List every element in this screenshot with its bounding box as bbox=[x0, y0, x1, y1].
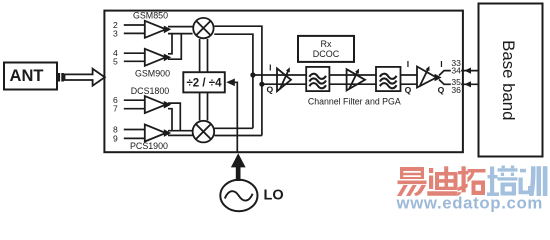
svg-text:Rx: Rx bbox=[321, 39, 332, 49]
svg-text:3: 3 bbox=[113, 28, 118, 38]
LNA DCS1800 bbox=[145, 96, 166, 113]
wire PCS1900 pair to mixer RF2 input (lower) bbox=[168, 134, 193, 136]
svg-text:DCOC: DCOC bbox=[313, 49, 340, 59]
watermark 易 bbox=[397, 167, 427, 196]
PGA amplifier A1 bbox=[277, 67, 291, 91]
mixer M2 (high band) bbox=[193, 121, 215, 143]
pin 8 lead wire bbox=[124, 129, 145, 131]
svg-text:LO: LO bbox=[264, 188, 284, 204]
pin 5 lead wire bbox=[124, 60, 145, 62]
svg-text:9: 9 bbox=[113, 133, 118, 143]
svg-text:÷2 / ÷4: ÷2 / ÷4 bbox=[187, 77, 223, 89]
svg-text:GSM850: GSM850 bbox=[133, 10, 168, 20]
A3 output arrowhead bbox=[435, 74, 442, 82]
svg-text:7: 7 bbox=[113, 104, 118, 114]
wire DCS1800 output A bbox=[168, 103, 180, 131]
wire Q output to baseband bbox=[439, 80, 479, 85]
arrowhead on I output bbox=[464, 68, 471, 74]
RF transceiver block outline bbox=[104, 11, 463, 153]
pin 7 lead wire bbox=[124, 108, 145, 110]
pin 3 lead wire bbox=[124, 32, 145, 34]
svg-text:34: 34 bbox=[451, 66, 461, 76]
svg-text:I: I bbox=[440, 59, 442, 69]
channel filter F2 bbox=[376, 67, 401, 91]
LNA GSM900 bbox=[145, 49, 166, 66]
svg-text:Q: Q bbox=[438, 85, 445, 95]
GSM850 output arrowhead bbox=[164, 26, 171, 34]
pin 2 lead wire bbox=[124, 24, 145, 26]
svg-text:GSM900: GSM900 bbox=[135, 68, 170, 78]
svg-text:DCS1800: DCS1800 bbox=[131, 86, 170, 96]
svg-text:www.edatop.com: www.edatop.com bbox=[396, 194, 543, 213]
arrowhead into divider bbox=[226, 79, 235, 87]
pin 35 label bbox=[451, 77, 461, 87]
svg-text:PCS1900: PCS1900 bbox=[130, 141, 168, 151]
wire mixer M2 output upper bbox=[215, 127, 253, 129]
antenna box ANT bbox=[4, 63, 57, 90]
watermark 培 bbox=[487, 166, 518, 197]
svg-text:I: I bbox=[407, 59, 409, 69]
svg-text:Base band: Base band bbox=[499, 40, 518, 120]
antenna connector plug bbox=[58, 73, 64, 82]
RF input arrow into transceiver bbox=[65, 69, 105, 86]
LNA PCS1900 bbox=[145, 125, 166, 142]
LO drive arrow (external, thick) bbox=[231, 153, 246, 181]
wire GSM850 pair to mixer RF1 input (upper) bbox=[168, 26, 193, 28]
wire I output to baseband bbox=[439, 71, 479, 76]
wire divider to mixer M2 LO (left) bbox=[199, 92, 201, 120]
svg-text:Channel Filter and PGA: Channel Filter and PGA bbox=[308, 97, 401, 107]
GSM900 output arrowhead bbox=[164, 54, 171, 62]
DCS1800 output arrowhead bbox=[164, 101, 171, 109]
pin 6 lead wire bbox=[124, 99, 145, 101]
LNA GSM850 bbox=[145, 21, 166, 38]
svg-text:Q: Q bbox=[267, 85, 274, 95]
PGA amplifier A3 bbox=[417, 66, 436, 88]
Base band block bbox=[479, 4, 543, 157]
LO oscillator bbox=[220, 180, 257, 212]
svg-text:I: I bbox=[269, 62, 271, 72]
watermark 训 bbox=[519, 166, 548, 196]
wire divider to mixer M2 LO (right) bbox=[207, 92, 209, 120]
PGA amplifier A2 bbox=[347, 69, 365, 91]
wire divider to mixer M1 LO (left) bbox=[199, 39, 201, 72]
wire mixer M1 output upper bbox=[214, 26, 262, 135]
wire mixer M1 output lower bbox=[214, 34, 253, 128]
watermark 拓 bbox=[458, 166, 486, 196]
mixer M1 (low band) bbox=[193, 18, 213, 38]
wire Q line bbox=[262, 83, 417, 85]
wire DCS1800 output B bbox=[168, 109, 172, 131]
wire mixer M2 output lower bbox=[215, 135, 262, 137]
svg-text:Q: Q bbox=[405, 85, 412, 95]
junction node Q bbox=[259, 82, 264, 87]
LO input wire into divider bbox=[234, 82, 237, 152]
pin 4 lead wire bbox=[124, 52, 145, 54]
LO divider block ÷2/÷4 bbox=[183, 72, 225, 92]
watermark 迪 bbox=[427, 166, 457, 195]
svg-text:5: 5 bbox=[113, 56, 118, 66]
wire GSM850 pair to mixer RF1 input (lower) bbox=[168, 33, 193, 35]
junction node I bbox=[250, 72, 255, 77]
wire GSM900 output A bbox=[168, 34, 172, 54]
pin 34 label bbox=[451, 66, 461, 76]
channel filter F1 bbox=[306, 67, 329, 91]
svg-text:ANT: ANT bbox=[10, 67, 44, 85]
Rx DCOC block bbox=[298, 36, 354, 62]
wire divider to mixer M1 LO (right) bbox=[207, 39, 209, 72]
wire GSM900 output B bbox=[168, 34, 181, 60]
arrowhead on Q output bbox=[464, 81, 471, 87]
svg-text:36: 36 bbox=[451, 85, 461, 95]
pin 9 lead wire bbox=[124, 137, 145, 139]
wire I line bbox=[253, 74, 417, 76]
wire PCS1900 pair to mixer RF2 input (upper) bbox=[168, 130, 193, 132]
PCS1900 output arrowhead bbox=[164, 129, 171, 137]
